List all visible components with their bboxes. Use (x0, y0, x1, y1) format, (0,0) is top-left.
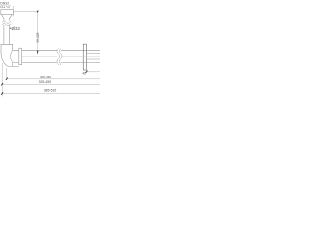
svg-text:300-430: 300-430 (40, 75, 51, 79)
svg-text:G1 ¼″: G1 ¼″ (0, 5, 11, 9)
svg-text:95-125: 95-125 (36, 32, 40, 42)
svg-text:325-455: 325-455 (39, 80, 52, 84)
svg-text:40: 40 (82, 72, 86, 76)
svg-text:385-515: 385-515 (44, 89, 57, 93)
svg-text:Ø32: Ø32 (12, 26, 21, 31)
